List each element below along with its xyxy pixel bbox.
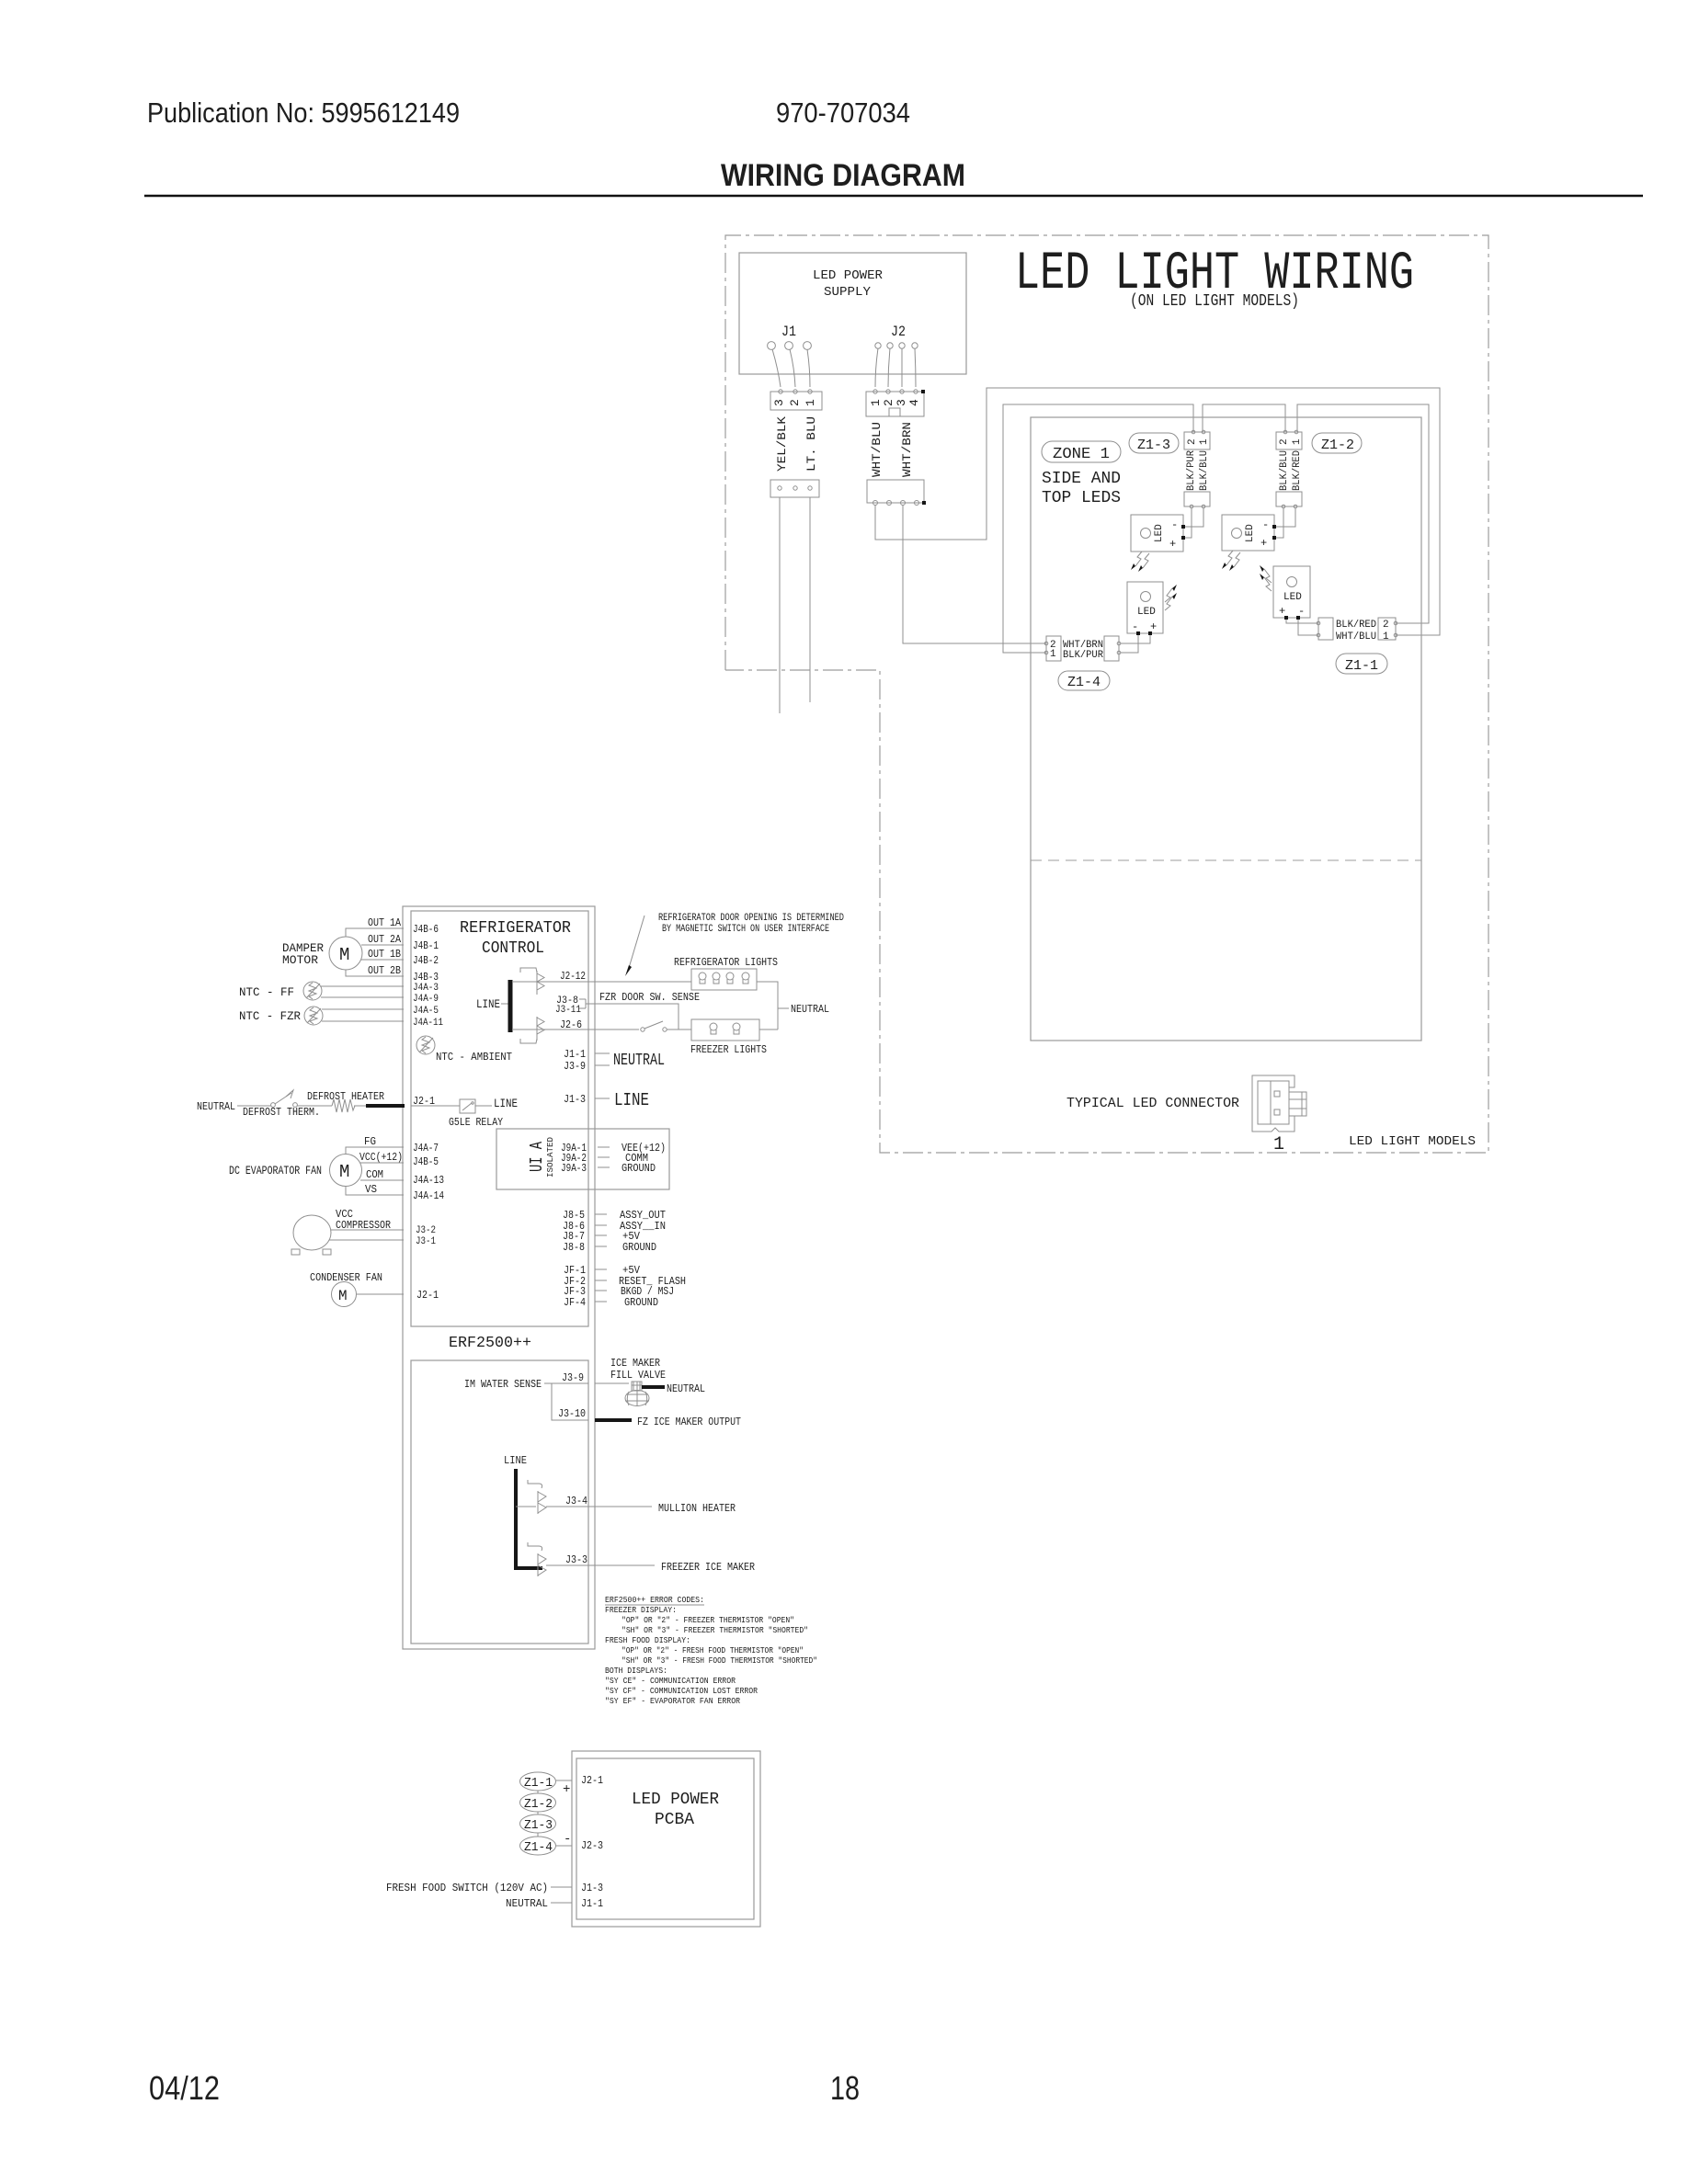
svg-text:J4B-5: J4B-5 (413, 1155, 439, 1168)
node Z1-3 stadium (1129, 433, 1179, 453)
svg-text:FRESH FOOD SWITCH (120V AC): FRESH FOOD SWITCH (120V AC) (386, 1882, 548, 1894)
svg-text:LINE: LINE (494, 1097, 518, 1110)
svg-text:JF-4: JF-4 (564, 1296, 586, 1309)
LED module 3 emission arrows (1165, 585, 1177, 610)
svg-text:J4A-5: J4A-5 (413, 1006, 439, 1017)
svg-text:NEUTRAL: NEUTRAL (506, 1897, 548, 1910)
wire WHT/BRN net: J2-3 down to Z1-4 pin 2 (903, 505, 1046, 643)
svg-text:FZR DOOR SW. SENSE: FZR DOOR SW. SENSE (599, 991, 700, 1004)
svg-text:"SY CE" - COMMUNICATION ERROR: "SY CE" - COMMUNICATION ERROR (605, 1676, 736, 1686)
svg-text:WHT/BLU: WHT/BLU (870, 422, 884, 477)
wire refrigerator lights to neutral riser (757, 982, 778, 1029)
svg-text:2: 2 (788, 399, 802, 406)
svg-text:J1-1: J1-1 (581, 1897, 603, 1910)
triac for J3-4 (528, 1480, 546, 1514)
node Z1-3 oval (520, 1814, 556, 1833)
refrigerator lights box with 4 bulbs (691, 969, 757, 990)
svg-text:BLK/PUR: BLK/PUR (1186, 450, 1197, 491)
note arrow to J2-12 (629, 916, 644, 968)
svg-text:(ON LED LIGHT MODELS): (ON LED LIGHT MODELS) (1130, 292, 1299, 311)
svg-text:J4B-6: J4B-6 (413, 923, 439, 936)
svg-text:J2-3: J2-3 (581, 1839, 603, 1852)
svg-text:NEUTRAL: NEUTRAL (197, 1100, 235, 1113)
svg-text:TYPICAL LED CONNECTOR: TYPICAL LED CONNECTOR (1066, 1096, 1239, 1111)
svg-text:ERF2500++ ERROR CODES:: ERF2500++ ERROR CODES: (605, 1595, 704, 1605)
ice maker fill valve symbol (625, 1382, 649, 1406)
compressor wires to J3-2 J3-1 (329, 1230, 404, 1240)
G5LE relay (460, 1099, 475, 1113)
svg-text:1: 1 (1199, 438, 1210, 445)
svg-text:YEL/BLK: YEL/BLK (775, 416, 789, 472)
wire triac to J3-4 pin and mullion heater (546, 1506, 652, 1507)
defrost thermostat (237, 1090, 297, 1107)
svg-text:SUPPLY: SUPPLY (824, 285, 872, 300)
svg-text:2: 2 (1383, 620, 1389, 631)
svg-text:"OP" OR "2" - FREEZER THERMIST: "OP" OR "2" - FREEZER THERMISTOR "OPEN" (622, 1615, 794, 1625)
svg-text:FZ ICE MAKER OUTPUT: FZ ICE MAKER OUTPUT (637, 1416, 741, 1428)
svg-text:MOTOR: MOTOR (282, 953, 318, 967)
J1 pin leads (772, 349, 810, 387)
svg-text:LED POWER: LED POWER (813, 268, 884, 283)
svg-text:GROUND: GROUND (624, 1296, 658, 1309)
svg-text:LINE: LINE (504, 1454, 527, 1467)
svg-text:04/12: 04/12 (149, 2069, 220, 2107)
LINE stub wire J1-3 (595, 1098, 610, 1099)
connector Z1-1 right block with pin numbers (1378, 618, 1396, 640)
svg-text:3: 3 (772, 399, 786, 406)
wire J2-1 to G5LE relay (411, 1105, 460, 1107)
LINE thick bus bar (508, 980, 513, 1032)
svg-text:-: - (564, 1832, 571, 1847)
svg-text:FILL VALVE: FILL VALVE (610, 1369, 666, 1382)
damper motor M symbol (329, 937, 362, 970)
svg-text:LINE: LINE (614, 1090, 649, 1110)
svg-text:LINE: LINE (476, 997, 500, 1011)
svg-text:2: 2 (1279, 438, 1290, 445)
connector Z1-4 left block with pin numbers (1046, 636, 1061, 661)
NTC - FF thermistor symbol (303, 982, 322, 1000)
svg-text:LED: LED (1283, 592, 1302, 603)
svg-text:LED LIGHT MODELS: LED LIGHT MODELS (1349, 1134, 1476, 1149)
svg-text:Publication No: 5995612149: Publication No: 5995612149 (147, 97, 460, 129)
svg-text:BLK/RED: BLK/RED (1336, 620, 1376, 631)
refrigerator control outer box (403, 906, 595, 1649)
condenser fan wire to J2-1 (357, 1293, 404, 1295)
neutral stub and label (778, 1007, 789, 1009)
svg-text:OUT 2B: OUT 2B (368, 964, 401, 977)
wire Z1-3 socket to LED module 1 (1183, 508, 1192, 538)
LED module 4 (lower right, zone Z1-1) (1273, 566, 1310, 620)
svg-text:J3-1: J3-1 (416, 1236, 436, 1247)
svg-text:LED: LED (1154, 524, 1165, 542)
svg-text:LT. BLU: LT. BLU (804, 416, 818, 472)
wire J2-12 to refrigerator lights (588, 981, 691, 983)
svg-text:J3-2: J3-2 (416, 1225, 436, 1236)
thick LINE bus (516, 1469, 542, 1568)
svg-text:J2-1: J2-1 (416, 1289, 439, 1302)
typical LED connector icon (1252, 1075, 1306, 1132)
svg-text:J1: J1 (781, 324, 796, 340)
wire BLK/BLU link rail: Z1-3 pin 1 to Z1-2 pin 2 (1203, 404, 1285, 432)
svg-text:Z1-2: Z1-2 (524, 1797, 553, 1812)
svg-text:J2-12: J2-12 (560, 970, 586, 983)
wire J3-9 to fill valve (595, 1382, 629, 1384)
svg-text:SIDE AND: SIDE AND (1042, 470, 1121, 488)
header horizontal rule (144, 195, 1643, 197)
wire BLK/RED rail: Z1-2 pin 1 to Z1-1 pin 2 (1297, 404, 1429, 623)
svg-text:DEFROST THERM.: DEFROST THERM. (243, 1106, 320, 1119)
svg-text:1: 1 (1383, 631, 1389, 643)
J1 socket connector body (770, 480, 819, 497)
svg-text:M: M (339, 945, 349, 965)
wire Z1-4 to LED module 3 (1121, 635, 1150, 643)
wire relay to LINE (475, 1105, 492, 1107)
wire triac to J3-3 pin and freezer ice maker (546, 1564, 655, 1566)
J1 plug connector body (770, 392, 822, 410)
svg-text:+: + (1169, 538, 1176, 551)
svg-text:DC EVAPORATOR FAN: DC EVAPORATOR FAN (229, 1164, 322, 1177)
svg-text:J9A-3: J9A-3 (561, 1162, 587, 1175)
svg-text:1: 1 (869, 399, 883, 406)
LED module 1 (upper left) (1131, 515, 1185, 552)
chain links between ovals (537, 1791, 539, 1837)
svg-text:Z1-3: Z1-3 (524, 1818, 553, 1833)
NTC ambient thermistor symbol (416, 1036, 435, 1054)
svg-text:3: 3 (895, 399, 908, 406)
J2 pin leads (875, 348, 916, 387)
svg-text:FREEZER DISPLAY:: FREEZER DISPLAY: (605, 1605, 677, 1615)
svg-text:OUT 2A: OUT 2A (368, 933, 402, 946)
svg-text:J4A-14: J4A-14 (413, 1189, 444, 1202)
svg-text:DEFROST HEATER: DEFROST HEATER (307, 1090, 384, 1103)
svg-text:Z1-3: Z1-3 (1137, 438, 1170, 453)
svg-text:J3-9: J3-9 (562, 1371, 584, 1384)
wire BLK/PUR rail: Z1-3 pin 2 to Z1-4 pin 1 (1003, 404, 1193, 653)
LED module 1 emission arrows (1131, 552, 1149, 572)
compressor symbol (291, 1215, 331, 1255)
svg-text:FG: FG (364, 1135, 376, 1148)
svg-text:WIRING DIAGRAM: WIRING DIAGRAM (721, 158, 965, 193)
freezer door switch (641, 1021, 667, 1031)
wire freezer lights to neutral riser (759, 1029, 778, 1030)
NTC - FZR wires to J4A-5 / J4A-11 (322, 1009, 404, 1021)
LED module 2 (upper right) (1222, 515, 1276, 551)
svg-text:+: + (1279, 605, 1285, 618)
node Z1-2 stadium (1312, 433, 1362, 453)
svg-text:"OP" OR "2" - FRESH FOOD THERM: "OP" OR "2" - FRESH FOOD THERMISTOR "OPE… (622, 1645, 804, 1655)
zone box dashed divider (1031, 859, 1421, 861)
J2 supply pins (875, 343, 918, 348)
Z1-3 plug connector (1184, 432, 1210, 449)
thick wire FZ ice maker output (595, 1418, 632, 1422)
Z1-2 plug connector (1276, 432, 1302, 449)
lower control inner box (411, 1360, 588, 1644)
svg-text:Z1-4: Z1-4 (1067, 675, 1101, 690)
evaporator fan wires FG VCC COM VS (346, 1147, 404, 1195)
svg-text:J4B-2: J4B-2 (413, 954, 439, 967)
junction dot at J2 plug pin 4 (921, 390, 925, 393)
svg-text:VCC(+12): VCC(+12) (359, 1151, 403, 1164)
node Z1-2 oval (520, 1793, 556, 1812)
svg-text:REFRIGERATOR DOOR OPENING IS D: REFRIGERATOR DOOR OPENING IS DETERMINED (658, 913, 844, 924)
svg-text:OUT 1B: OUT 1B (368, 948, 401, 961)
svg-text:FRESH FOOD DISPLAY:: FRESH FOOD DISPLAY: (605, 1635, 690, 1645)
wire WHT/BLU net: J2-1 to rail to Z1-1 pin 1 (875, 388, 1440, 635)
svg-text:J4A-7: J4A-7 (413, 1142, 439, 1155)
svg-text:J3-3: J3-3 (565, 1553, 587, 1566)
svg-text:GROUND: GROUND (622, 1162, 656, 1175)
svg-text:J4A-3: J4A-3 (413, 983, 439, 994)
zone 1 enclosure box (1031, 417, 1421, 1041)
svg-text:1: 1 (1292, 438, 1303, 445)
J2 socket connector body (867, 480, 924, 503)
svg-text:LED: LED (1245, 524, 1256, 542)
damper motor wires OUT 1A/2A/1B/2B (346, 928, 404, 976)
svg-text:970-707034: 970-707034 (776, 97, 910, 129)
svg-text:TOP LEDS: TOP LEDS (1042, 489, 1121, 507)
svg-text:BLK/BLU: BLK/BLU (1199, 450, 1210, 491)
svg-text:"SH" OR "3" - FRESH FOOD THERM: "SH" OR "3" - FRESH FOOD THERMISTOR "SHO… (622, 1655, 817, 1666)
svg-text:BLK/PUR: BLK/PUR (1063, 650, 1103, 661)
svg-text:UI A: UI A (527, 1142, 547, 1172)
defrost heater element (297, 1099, 366, 1112)
svg-text:REFRIGERATOR: REFRIGERATOR (460, 919, 571, 938)
NTC - FZR thermistor symbol (304, 1007, 323, 1025)
svg-text:1: 1 (804, 399, 817, 406)
svg-text:J4A-13: J4A-13 (413, 1174, 444, 1187)
LED power PCBA inner box (576, 1758, 754, 1919)
connector Z1-4 right block (1104, 636, 1119, 661)
svg-text:J3-9: J3-9 (564, 1060, 586, 1073)
svg-text:2: 2 (1187, 438, 1198, 445)
svg-text:NTC - FZR: NTC - FZR (239, 1009, 301, 1023)
svg-text:J8-8: J8-8 (563, 1241, 585, 1254)
Z1-3 socket connector (1184, 492, 1210, 506)
svg-text:NEUTRAL: NEUTRAL (667, 1382, 705, 1395)
svg-text:LED: LED (1137, 607, 1156, 618)
svg-text:WHT/BRN: WHT/BRN (900, 422, 914, 477)
svg-text:BOTH DISPLAYS:: BOTH DISPLAYS: (605, 1666, 667, 1676)
svg-text:WHT/BLU: WHT/BLU (1336, 631, 1376, 643)
condenser fan M symbol (332, 1282, 357, 1307)
J9A stub wires (598, 1147, 610, 1167)
UI A isolated box (496, 1129, 669, 1189)
svg-text:J4A-9: J4A-9 (413, 994, 439, 1005)
J2 plug connector body (866, 392, 924, 416)
wire LT. BLU from J1-1 down (809, 497, 811, 702)
svg-text:1: 1 (1273, 1134, 1284, 1155)
wire Z1-2 socket to LED module 2 (1274, 508, 1283, 538)
LED POWER SUPPLY box (739, 253, 966, 374)
NTC - FF wires to J4A-3 / J4A-9 (321, 986, 404, 997)
svg-text:J2-1: J2-1 (581, 1774, 603, 1787)
J1 supply pins (768, 342, 812, 350)
svg-text:ZONE 1: ZONE 1 (1053, 446, 1110, 463)
switch triangle to J2-12 (512, 968, 588, 995)
wire neutral to J1-1 (551, 1902, 572, 1904)
svg-text:"SY EF" - EVAPORATOR FAN ERROR: "SY EF" - EVAPORATOR FAN ERROR (605, 1696, 740, 1706)
svg-text:2: 2 (882, 399, 895, 406)
node Z1-1 oval (520, 1772, 556, 1791)
svg-text:BLK/BLU: BLK/BLU (1279, 450, 1290, 491)
svg-text:Z1-1: Z1-1 (1345, 658, 1378, 674)
svg-text:J4B-1: J4B-1 (413, 939, 439, 952)
LED module 4 emission arrows (1260, 565, 1272, 591)
svg-text:+: + (563, 1782, 570, 1797)
wire Z1-4 to J2-3 (556, 1845, 572, 1847)
svg-text:PCBA: PCBA (655, 1811, 694, 1829)
freezer lights box with 2 bulbs (691, 1019, 759, 1041)
NEUTRAL stub wires J1-1 / J3-9 (595, 1053, 610, 1065)
svg-text:BY MAGNETIC SWITCH ON USER INT: BY MAGNETIC SWITCH ON USER INTERFACE (662, 924, 829, 935)
wire J2-6 to door switch (588, 1029, 639, 1030)
svg-text:J3-10: J3-10 (558, 1407, 586, 1420)
svg-text:Z1-2: Z1-2 (1321, 438, 1354, 453)
svg-text:+: + (1260, 537, 1267, 550)
svg-text:J4B-3: J4B-3 (413, 971, 439, 984)
JF stub wires (595, 1269, 607, 1302)
svg-text:ISOLATED: ISOLATED (546, 1137, 555, 1177)
svg-text:GROUND: GROUND (622, 1241, 656, 1254)
thick wire defrost heater to J2-1 (366, 1104, 405, 1108)
svg-text:"SH" OR "3" - FREEZER THERMIST: "SH" OR "3" - FREEZER THERMISTOR "SHORTE… (622, 1625, 808, 1635)
svg-text:G5LE RELAY: G5LE RELAY (449, 1116, 503, 1129)
svg-text:Z1-1: Z1-1 (524, 1776, 553, 1791)
svg-text:4: 4 (907, 399, 921, 406)
J8 stub wires (595, 1214, 607, 1246)
svg-text:-: - (1132, 620, 1138, 633)
refrigerator control inner box (411, 911, 588, 1326)
svg-text:NTC - FF: NTC - FF (239, 985, 294, 999)
svg-text:BLK/RED: BLK/RED (1292, 450, 1303, 491)
svg-text:ERF2500++: ERF2500++ (449, 1335, 531, 1352)
svg-text:Z1-4: Z1-4 (524, 1840, 553, 1855)
wire switch to freezer lights (667, 1029, 691, 1030)
node Z1-4 stadium (1058, 671, 1110, 690)
svg-text:J3-11: J3-11 (555, 1005, 581, 1016)
wire fresh food switch to J1-3 (551, 1886, 572, 1888)
ZONE 1 stadium label (1042, 441, 1121, 462)
svg-text:FREEZER ICE MAKER: FREEZER ICE MAKER (661, 1561, 755, 1574)
svg-text:REFRIGERATOR LIGHTS: REFRIGERATOR LIGHTS (674, 956, 778, 969)
svg-text:M: M (339, 1162, 349, 1182)
svg-text:J1-1: J1-1 (564, 1048, 586, 1061)
svg-text:CONTROL: CONTROL (482, 939, 544, 958)
node Z1-1 stadium (1336, 654, 1387, 674)
svg-text:NTC - AMBIENT: NTC - AMBIENT (436, 1051, 512, 1064)
wire LED module 4 to Z1-1 connector (1286, 620, 1318, 623)
svg-text:NEUTRAL: NEUTRAL (791, 1003, 829, 1016)
svg-text:J1-3: J1-3 (581, 1882, 603, 1894)
wire LINE to triac J3-4 (516, 1506, 536, 1507)
thick wire valve to NEUTRAL (642, 1385, 665, 1389)
dash-dot border of LED LIGHT WIRING panel (725, 235, 1488, 1153)
Z1-2 socket connector (1276, 492, 1302, 506)
svg-text:J1-3: J1-3 (564, 1093, 586, 1106)
wire Z1-1 to J2-1 (556, 1780, 572, 1781)
svg-text:ICE MAKER: ICE MAKER (610, 1357, 660, 1370)
DC evaporator fan M symbol (330, 1155, 362, 1187)
LED module 3 (lower left, zone Z1-4) (1127, 582, 1163, 635)
svg-text:-: - (1298, 605, 1305, 618)
svg-text:J3-4: J3-4 (565, 1495, 587, 1507)
svg-text:MULLION HEATER: MULLION HEATER (658, 1502, 736, 1515)
svg-text:IM WATER SENSE: IM WATER SENSE (464, 1378, 542, 1391)
svg-text:OUT 1A: OUT 1A (368, 916, 402, 929)
triac for J3-3 (528, 1542, 546, 1576)
svg-text:-: - (1171, 518, 1178, 531)
IM water sense bracket wires (544, 1383, 588, 1420)
svg-text:1: 1 (1050, 649, 1056, 660)
node Z1-4 oval (520, 1837, 556, 1855)
switch triangle to J2-6 (512, 1017, 588, 1043)
svg-text:+: + (1150, 620, 1157, 633)
svg-text:-: - (1262, 518, 1269, 531)
FZR door switch sense bracket (579, 999, 679, 1029)
svg-text:"SY CF" - COMMUNICATION LOST E: "SY CF" - COMMUNICATION LOST ERROR (605, 1686, 758, 1696)
svg-text:FREEZER LIGHTS: FREEZER LIGHTS (690, 1043, 767, 1056)
LED power PCBA outer box (572, 1751, 760, 1927)
connector Z1-1 left block (1318, 618, 1333, 640)
svg-text:LED POWER: LED POWER (632, 1791, 719, 1809)
LED module 2 emission arrows (1222, 551, 1240, 571)
junction dot at J2 socket pin 4 (922, 501, 926, 505)
wire YEL/BLK from J1-3 down (779, 497, 781, 713)
svg-text:J4A-11: J4A-11 (413, 1018, 443, 1029)
svg-text:COM: COM (366, 1168, 383, 1181)
svg-text:NEUTRAL: NEUTRAL (613, 1052, 665, 1070)
svg-text:VS: VS (365, 1183, 377, 1196)
svg-text:J2: J2 (891, 324, 906, 340)
svg-text:M: M (338, 1288, 348, 1304)
svg-text:18: 18 (830, 2069, 860, 2107)
